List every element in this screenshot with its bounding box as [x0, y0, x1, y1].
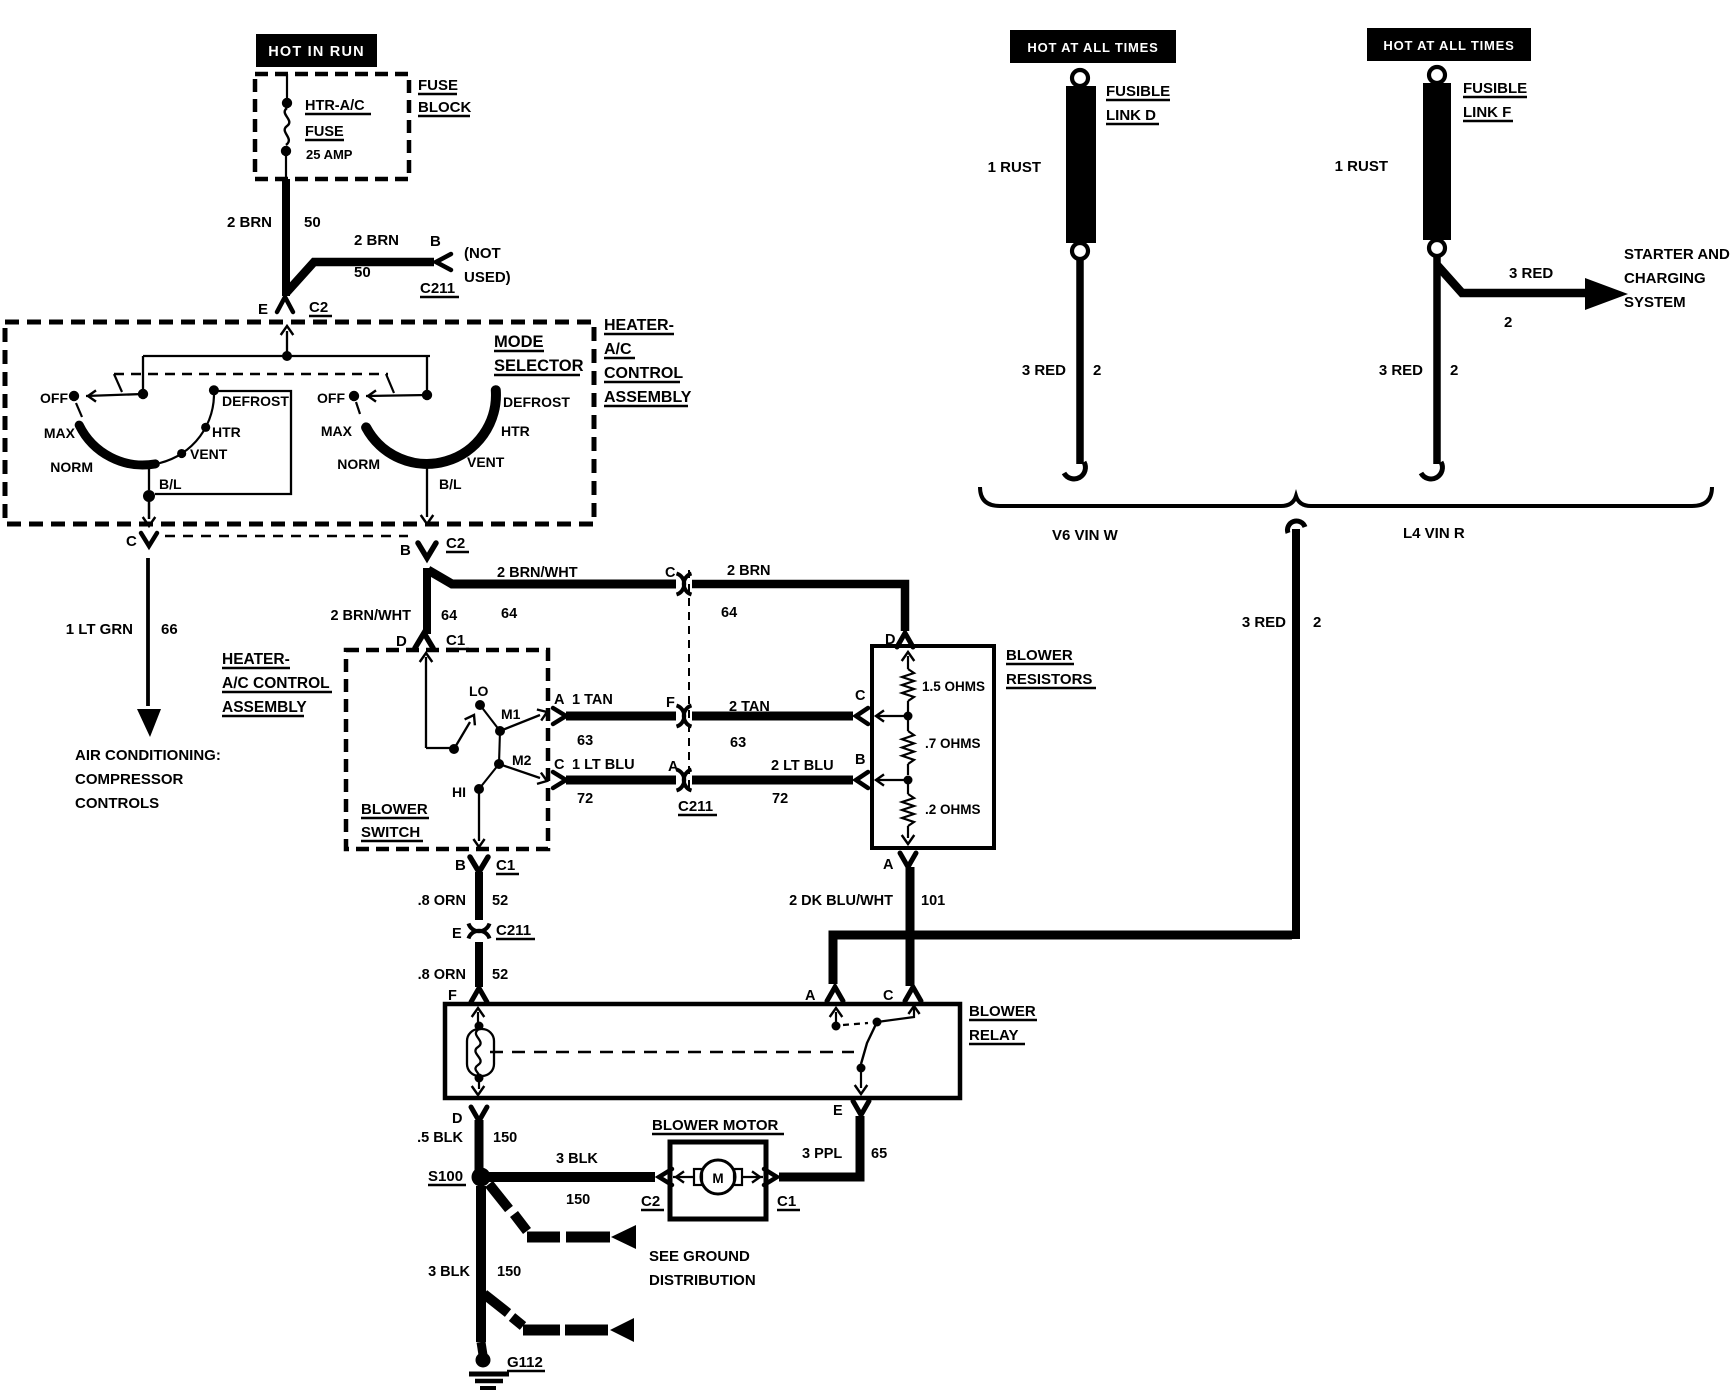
svg-text:2 BRN/WHT: 2 BRN/WHT [497, 565, 578, 581]
svg-text:CONTROL: CONTROL [604, 365, 683, 382]
svg-text:2: 2 [1504, 314, 1512, 331]
wire contact M2 to pin C [499, 764, 547, 784]
splice S100 [428, 1168, 491, 1187]
svg-text:G112: G112 [507, 1354, 543, 1371]
wire feed bus inside mode selector [143, 351, 430, 361]
svg-text:D: D [396, 633, 407, 650]
node between 1.5 and .7 (tap C) [876, 710, 913, 721]
svg-text:M1: M1 [501, 706, 521, 722]
svg-text:2 TAN: 2 TAN [729, 699, 770, 715]
svg-text:A: A [668, 759, 679, 775]
svg-text:150: 150 [493, 1130, 517, 1146]
svg-text:HOT AT ALL TIMES: HOT AT ALL TIMES [1383, 38, 1514, 53]
svg-text:HTR: HTR [212, 424, 241, 440]
wire contact HI to pin B [473, 789, 484, 847]
ground G112 [469, 1353, 545, 1389]
svg-text:.8 ORN: .8 ORN [418, 893, 466, 909]
connector pin A + wire 1 TAN 63 [553, 692, 676, 749]
connector pin D (blower resistors) [885, 632, 913, 648]
relay actuation dashed link [490, 1051, 854, 1053]
connector C2 pin B (mode selector output) [400, 535, 469, 559]
connector C211 pin E [452, 922, 535, 942]
svg-text:1 LT BLU: 1 LT BLU [572, 757, 635, 773]
svg-text:BLOWER: BLOWER [361, 801, 428, 818]
connector C211 pin B (not used) [420, 233, 511, 297]
wire .8 ORN 52 (C211 to relay F) [475, 942, 483, 987]
label BLOWER MOTOR [652, 1117, 784, 1134]
svg-text:2 LT BLU: 2 LT BLU [771, 758, 834, 774]
label 1 RUST (link F) [1335, 158, 1388, 175]
svg-text:66: 66 [161, 621, 178, 638]
blower relay box [445, 1004, 960, 1098]
svg-text:B: B [455, 857, 466, 874]
svg-text:2 BRN: 2 BRN [727, 563, 771, 579]
svg-text:C1: C1 [777, 1193, 796, 1210]
svg-text:SYSTEM: SYSTEM [1624, 294, 1686, 311]
svg-text:AIR CONDITIONING:: AIR CONDITIONING: [75, 747, 221, 764]
svg-text:MAX: MAX [321, 423, 353, 439]
connector pin F (relay) [448, 988, 487, 1004]
label 2 BRN 64 [721, 563, 771, 621]
svg-text:M: M [712, 1171, 723, 1186]
svg-text:HI: HI [452, 784, 466, 800]
svg-text:E: E [833, 1103, 843, 1119]
label V6 VIN W [1052, 527, 1119, 544]
wire 2 TAN 63 (C211 to resistor C) [692, 699, 853, 751]
label 3 BLK 150 (ground wire) [428, 1264, 521, 1280]
svg-text:HEATER-: HEATER- [604, 317, 674, 334]
label 3 PPL 65 [802, 1146, 887, 1162]
svg-text:ASSEMBLY: ASSEMBLY [604, 389, 692, 406]
svg-text:HEATER-: HEATER- [222, 651, 290, 668]
connector pin A (relay) [805, 987, 843, 1004]
svg-text:.2 OHMS: .2 OHMS [925, 802, 981, 817]
wire 2 BRN 64 (C211 to resistor D) [692, 584, 905, 631]
connector pin C + wire 1 LT BLU 72 [553, 757, 676, 807]
svg-text:B/L: B/L [159, 476, 182, 492]
svg-text:52: 52 [492, 967, 508, 983]
svg-text:64: 64 [441, 608, 457, 624]
label HEATER-A/C CONTROL ASSEMBLY (blower switch) [222, 651, 332, 716]
svg-text:A/C CONTROL: A/C CONTROL [222, 675, 330, 692]
connector pin C (A/C compressor output) [126, 533, 157, 550]
connector C1 (blower motor) [764, 1169, 800, 1210]
connector pin E (relay output) [833, 1101, 869, 1119]
svg-text:1 RUST: 1 RUST [1335, 158, 1388, 175]
svg-text:3 RED: 3 RED [1379, 362, 1423, 379]
ground distribution stub 2 [484, 1294, 634, 1342]
svg-text:C2: C2 [641, 1193, 660, 1210]
svg-text:C211: C211 [678, 798, 713, 815]
svg-text:64: 64 [721, 605, 737, 621]
svg-text:2 BRN/WHT: 2 BRN/WHT [330, 608, 411, 624]
connector C211 dashed line [688, 570, 690, 793]
svg-text:M2: M2 [512, 752, 532, 768]
svg-text:HTR: HTR [501, 423, 530, 439]
wire branch 2 BRN 50 to C211 B (not used) [287, 262, 434, 292]
destination label STARTER AND CHARGING SYSTEM [1624, 246, 1730, 311]
svg-text:VENT: VENT [467, 454, 505, 470]
svg-text:CONTROLS: CONTROLS [75, 795, 159, 812]
label BLOWER RESISTORS [1006, 647, 1096, 688]
svg-text:HTR-A/C: HTR-A/C [305, 98, 365, 114]
svg-text:C211: C211 [496, 922, 531, 939]
label .8 ORN 52 (lower) [418, 967, 508, 983]
svg-text:ASSEMBLY: ASSEMBLY [222, 699, 307, 716]
svg-text:2 BRN: 2 BRN [354, 232, 399, 249]
svg-text:.8 ORN: .8 ORN [418, 967, 466, 983]
label 3 RED 2 (link D) [1022, 362, 1102, 379]
label 3 BLK 150 (motor wire) [556, 1151, 598, 1208]
connector C1 pin D (blower switch feed) [396, 632, 469, 748]
wire wafer 2 output to pin B [421, 464, 434, 524]
svg-text:RESISTORS: RESISTORS [1006, 671, 1092, 688]
svg-text:L4 VIN R: L4 VIN R [1403, 525, 1465, 542]
label 2 BRN 50 (vertical wire) [227, 214, 321, 231]
wire 3 PPL 65 (motor to relay E) [779, 1116, 860, 1177]
svg-text:LINK F: LINK F [1463, 104, 1511, 121]
relay coil [467, 1008, 494, 1095]
svg-text:3 RED: 3 RED [1242, 614, 1286, 631]
svg-text:V6 VIN W: V6 VIN W [1052, 527, 1119, 544]
svg-text:USED): USED) [464, 269, 511, 286]
svg-text:A: A [554, 692, 565, 708]
svg-text:25 AMP: 25 AMP [306, 147, 353, 162]
svg-text:C2: C2 [309, 299, 328, 316]
mode selector wafer 1 contact arc (OFF MAX NORM B/L VENT HTR DEFROST) [76, 385, 219, 465]
svg-text:NORM: NORM [50, 459, 93, 475]
connector pin C (resistors) [855, 688, 868, 724]
wire 1 LT GRN 66 to compressor controls [137, 558, 161, 737]
mode selector wafer 2 contact arc [366, 390, 496, 464]
wire wafer 1 output to pin C [143, 496, 156, 526]
svg-text:C2: C2 [446, 535, 465, 552]
connector C2 (blower motor) [641, 1169, 672, 1210]
svg-text:C: C [126, 533, 137, 550]
svg-text:F: F [666, 695, 675, 711]
label .5 BLK 150 [417, 1130, 517, 1146]
svg-text:1 LT GRN: 1 LT GRN [66, 621, 133, 638]
fuse block label FUSE BLOCK [418, 77, 471, 116]
svg-text:B/L: B/L [439, 476, 462, 492]
svg-text:50: 50 [304, 214, 321, 231]
connector C211 pin C (2 BRN) [665, 565, 692, 595]
wire .8 ORN 52 (switch B to C211) [475, 872, 483, 920]
fusible link D [1066, 70, 1096, 259]
label .8 ORN 52 (upper) [418, 893, 508, 909]
mechanical link (dashed) between mode selector wafers [114, 374, 394, 393]
svg-text:72: 72 [772, 791, 788, 807]
wafer 1 B/L tap to node [143, 464, 155, 502]
dashed link pin C to pin B [165, 535, 408, 537]
wire 2 DK BLU/WHT 101 [906, 867, 915, 986]
wire contact M1 to pin A [500, 710, 547, 732]
svg-text:SEE GROUND: SEE GROUND [649, 1248, 750, 1265]
wire DEFROST loop to B/L node (wafer 1) [155, 391, 291, 494]
svg-text:HOT IN RUN: HOT IN RUN [268, 44, 365, 60]
svg-text:2: 2 [1093, 362, 1101, 379]
svg-text:B: B [430, 233, 441, 250]
labels wafer 2 positions [317, 390, 570, 492]
svg-text:DEFROST: DEFROST [222, 393, 289, 409]
svg-text:D: D [452, 1111, 462, 1127]
svg-text:C1: C1 [496, 857, 515, 874]
connector C2 pin E (fuse feed into control assembly) [258, 297, 332, 356]
mode selector wafer 2 feed + wiper (points to OFF) [349, 356, 432, 414]
wire 3 RED 2 (link D down) [1064, 259, 1085, 479]
svg-text:2: 2 [1450, 362, 1458, 379]
wire 3 RED 2 (common feed down) [1287, 521, 1305, 939]
wire fuse output 2 BRN 50 (vertical) [282, 179, 290, 296]
power source label HOT IN RUN [256, 34, 377, 67]
svg-text:C1: C1 [446, 632, 465, 649]
relay contact A side [830, 1008, 868, 1031]
label FUSIBLE LINK D [1106, 83, 1170, 124]
wire 2 BRN/WHT 64 branch to C211 [428, 570, 676, 584]
label MODE SELECTOR [494, 333, 584, 375]
svg-text:A/C: A/C [604, 341, 632, 358]
svg-text:52: 52 [492, 893, 508, 909]
svg-text:SELECTOR: SELECTOR [494, 357, 584, 375]
connector C1 pin B (blower switch output) [455, 857, 519, 874]
resistor 1.5 OHMS [902, 652, 985, 712]
svg-text:BLOWER: BLOWER [1006, 647, 1073, 664]
fuse HTR-A/C FUSE 25 AMP symbol [281, 74, 292, 179]
svg-text:STARTER AND: STARTER AND [1624, 246, 1730, 263]
svg-text:F: F [448, 988, 457, 1004]
blower switch contacts LO M1 M2 HI [474, 700, 505, 794]
svg-text:BLOCK: BLOCK [418, 99, 471, 116]
blower switch (dashed box) [346, 650, 548, 849]
svg-text:C: C [554, 757, 565, 773]
svg-text:MAX: MAX [44, 425, 76, 441]
label 2 BRN/WHT 64 (vertical) [330, 608, 457, 624]
svg-text:OFF: OFF [317, 390, 345, 406]
svg-text:CHARGING: CHARGING [1624, 270, 1706, 287]
heater-A/C control assembly (mode selector, dashed box) [5, 322, 594, 524]
label FUSIBLE LINK F [1463, 80, 1527, 121]
svg-text:A: A [883, 857, 894, 873]
blower motor box [670, 1142, 766, 1219]
ground distribution stub 1 [489, 1184, 636, 1249]
blower switch wiper arm [426, 715, 475, 754]
svg-text:C211: C211 [420, 280, 455, 297]
svg-text:B: B [400, 542, 411, 559]
svg-text:50: 50 [354, 264, 371, 281]
wire 3 BLK 150 (S100 down to G112) [481, 1186, 483, 1355]
label BLOWER RELAY [969, 1003, 1037, 1044]
fusible link F [1423, 67, 1451, 256]
engine option brace V6 / L4 [980, 487, 1712, 506]
svg-text:(NOT: (NOT [464, 245, 501, 262]
labels wafer 1 positions [40, 390, 289, 492]
svg-text:SWITCH: SWITCH [361, 824, 420, 841]
svg-text:63: 63 [730, 735, 746, 751]
label 2 BRN 50 (branch wire) [354, 232, 399, 281]
svg-text:RELAY: RELAY [969, 1027, 1018, 1044]
wire 3 BLK 150 (S100 to motor C2) [489, 1172, 655, 1182]
label L4 VIN R [1403, 525, 1465, 542]
svg-text:3 RED: 3 RED [1509, 265, 1553, 282]
svg-text:3 BLK: 3 BLK [428, 1264, 470, 1280]
destination label AIR CONDITIONING COMPRESSOR CONTROLS [75, 747, 221, 812]
svg-text:FUSE: FUSE [305, 124, 344, 140]
svg-text:.5 BLK: .5 BLK [417, 1130, 463, 1146]
connector C211 pin F [666, 695, 692, 727]
svg-text:C: C [855, 688, 866, 704]
svg-text:VENT: VENT [190, 446, 228, 462]
fuse block (dashed outline) [255, 74, 409, 179]
svg-text:3 RED: 3 RED [1022, 362, 1066, 379]
svg-text:150: 150 [566, 1192, 590, 1208]
connector pin B (resistors) [855, 752, 868, 788]
svg-text:BLOWER MOTOR: BLOWER MOTOR [652, 1117, 779, 1134]
svg-text:NORM: NORM [337, 456, 380, 472]
labels LO M1 M2 HI [452, 683, 532, 800]
svg-text:1 RUST: 1 RUST [988, 159, 1041, 176]
label 3 RED 2 (starter branch) [1504, 265, 1553, 331]
label 3 RED 2 (link F) [1379, 362, 1459, 379]
svg-text:LO: LO [469, 683, 489, 699]
svg-text:S100: S100 [428, 1168, 463, 1185]
svg-text:BLOWER: BLOWER [969, 1003, 1036, 1020]
wire .5 BLK 150 (relay D to S100) [475, 1120, 484, 1170]
label 3 RED 2 (common feed) [1242, 614, 1322, 631]
svg-text:1.5 OHMS: 1.5 OHMS [922, 679, 985, 694]
power label HOT AT ALL TIMES (link D) [1010, 30, 1176, 63]
connector pin A (resistors) [883, 853, 916, 873]
svg-text:2 BRN: 2 BRN [227, 214, 272, 231]
blower motor M symbol [673, 1160, 763, 1194]
mode selector wafer 1 feed + wiper (points to OFF) [69, 356, 148, 402]
svg-text:65: 65 [871, 1146, 887, 1162]
svg-text:101: 101 [921, 893, 945, 909]
svg-text:1 TAN: 1 TAN [572, 692, 613, 708]
label 2 BRN/WHT 64 (horizontal) [497, 565, 578, 622]
resistor .2 OHMS [902, 784, 981, 844]
svg-text:150: 150 [497, 1264, 521, 1280]
connector pin D (relay output) [452, 1107, 487, 1127]
svg-text:MODE: MODE [494, 333, 544, 351]
svg-text:COMPRESSOR: COMPRESSOR [75, 771, 184, 788]
svg-text:C: C [665, 565, 676, 581]
svg-text:E: E [452, 926, 462, 942]
label connector C211 (middle) [678, 798, 717, 815]
blower resistors box [872, 646, 994, 848]
wire 3 RED 2 (link F down) [1421, 256, 1442, 479]
svg-text:B: B [855, 752, 865, 768]
svg-text:3 BLK: 3 BLK [556, 1151, 598, 1167]
fuse value label HTR-A/C FUSE 25 AMP [305, 98, 371, 162]
label HEATER-A/C CONTROL ASSEMBLY (right) [604, 317, 692, 406]
svg-text:2 DK BLU/WHT: 2 DK BLU/WHT [789, 893, 893, 909]
svg-text:OFF: OFF [40, 390, 68, 406]
svg-text:DEFROST: DEFROST [503, 394, 570, 410]
svg-text:C: C [883, 988, 894, 1004]
svg-text:.7 OHMS: .7 OHMS [925, 736, 981, 751]
svg-text:FUSIBLE: FUSIBLE [1106, 83, 1170, 100]
wire 3 RED to blower relay pin A [833, 935, 1292, 984]
connector pin C (relay) [883, 987, 921, 1004]
svg-text:A: A [805, 988, 816, 1004]
svg-text:FUSE: FUSE [418, 77, 458, 94]
svg-text:72: 72 [577, 791, 593, 807]
node between .7 and .2 (tap B) [876, 774, 913, 785]
wire 2 BRN/WHT 64 (B C2 down to D C1) [423, 568, 431, 634]
svg-text:63: 63 [577, 733, 593, 749]
connector C211 pin A [668, 759, 692, 791]
svg-text:64: 64 [501, 606, 517, 622]
svg-text:FUSIBLE: FUSIBLE [1463, 80, 1527, 97]
power label HOT AT ALL TIMES (link F) [1367, 28, 1531, 61]
svg-text:2: 2 [1313, 614, 1321, 631]
svg-text:DISTRIBUTION: DISTRIBUTION [649, 1272, 756, 1289]
label BLOWER SWITCH [361, 801, 429, 841]
wire 3 RED 2 branch to starter [1437, 265, 1628, 310]
resistor .7 OHMS [902, 720, 981, 775]
label 1 LT GRN 66 [66, 621, 178, 638]
relay switch pivot + arm [855, 1006, 920, 1094]
svg-text:E: E [258, 301, 268, 318]
wire 2 LT BLU 72 (C211 to resistor B) [692, 758, 853, 807]
label 1 RUST (link D) [988, 159, 1041, 176]
svg-text:HOT AT ALL TIMES: HOT AT ALL TIMES [1027, 40, 1158, 55]
svg-text:3 PPL: 3 PPL [802, 1146, 842, 1162]
svg-text:LINK D: LINK D [1106, 107, 1156, 124]
label 2 DK BLU/WHT 101 [789, 893, 945, 909]
label SEE GROUND DISTRIBUTION [649, 1248, 756, 1289]
